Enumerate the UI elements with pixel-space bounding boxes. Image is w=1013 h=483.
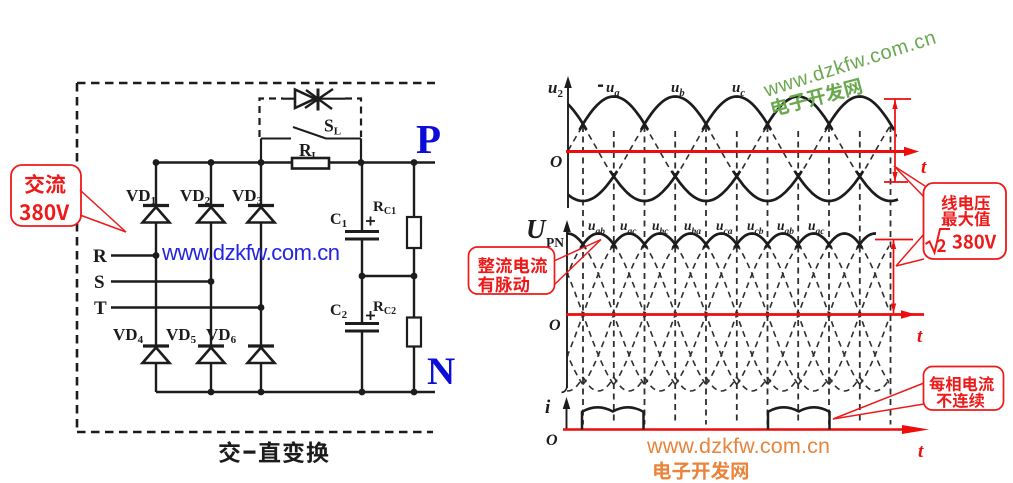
wire R	[111, 254, 156, 256]
svg-text:T: T	[94, 298, 107, 319]
top DC bus wire (P rail)	[156, 161, 293, 163]
capacitor C2	[345, 322, 379, 325]
bypass diode (crossed)	[283, 98, 345, 100]
middle plot rectified ripple UPN	[567, 234, 586, 249]
red dimension line top (amplitude)	[884, 98, 911, 100]
svg-text:t: t	[921, 157, 927, 178]
top plot upper envelope (ua ub uc positive humps)	[568, 104, 587, 130]
bottom plot y axis i	[566, 400, 568, 430]
capacitor column wire	[361, 163, 363, 232]
wire phase column x=156	[155, 163, 157, 206]
svg-text:O: O	[550, 152, 562, 171]
svg-text:P: P	[416, 116, 441, 162]
middle plot y axis UPN	[566, 223, 568, 388]
middle plot dashed line-voltage lattice	[522, 244, 953, 384]
svg-text:U: U	[526, 214, 547, 244]
svg-text:www.dzkfw.com.cn: www.dzkfw.com.cn	[161, 240, 340, 265]
top plot red time axis	[566, 150, 908, 153]
phase current pulses i	[582, 407, 644, 429]
diode VD4	[143, 344, 169, 347]
callout AC 380V	[11, 165, 81, 226]
svg-text:t: t	[918, 441, 924, 462]
wire T	[111, 306, 261, 308]
svg-text:i: i	[545, 397, 551, 418]
callout phase current discontinuous	[833, 383, 924, 419]
wire phase column x=261	[260, 163, 262, 206]
svg-text:t: t	[917, 326, 923, 347]
svg-text:O: O	[549, 317, 561, 334]
wire S	[111, 280, 211, 282]
callout rectified current has ripple	[554, 240, 601, 262]
diode VD1	[143, 204, 169, 207]
wire midpoint link	[362, 275, 414, 277]
caption 交-直变换	[219, 441, 240, 463]
dashed enclosure box (AC-DC converter)	[77, 83, 435, 432]
capacitor C1	[345, 230, 379, 233]
green watermark	[760, 27, 938, 102]
bottom DC bus wire (N rail)	[156, 391, 435, 393]
wire phase column x=211	[210, 163, 212, 206]
bottom plot red time axis	[563, 428, 905, 431]
top plot lower envelope (negative humps)	[568, 171, 617, 201]
top plot dashed sine crossover segments	[491, 126, 983, 178]
diode VD2	[198, 204, 224, 207]
svg-text:www.dzkfw.com.cn: www.dzkfw.com.cn	[646, 434, 830, 458]
svg-text:N: N	[427, 350, 455, 393]
middle plot red time axis	[566, 313, 924, 316]
diode VD3	[248, 204, 274, 207]
diode VD6	[248, 344, 274, 347]
top plot y axis u2	[567, 79, 569, 208]
resistor RC2	[407, 318, 421, 347]
switch SL	[261, 138, 291, 140]
phase labels ua ub uc	[598, 85, 603, 87]
svg-text:S: S	[94, 272, 105, 293]
middle plot dashed bottom envelope	[552, 377, 890, 391]
resistor RC1	[407, 217, 421, 248]
red dimension line middle	[875, 239, 913, 241]
svg-text:R: R	[93, 246, 107, 267]
resistor RL	[292, 158, 329, 169]
resistor column wire	[413, 163, 415, 218]
inner dashed box around bypass diode and switch	[260, 99, 362, 138]
diode VD5	[198, 344, 224, 347]
svg-text:O: O	[546, 432, 558, 449]
junction dots	[153, 159, 160, 166]
callout line voltage max sqrt2 380V	[894, 166, 925, 186]
dashed vertical grid lines	[583, 126, 891, 425]
